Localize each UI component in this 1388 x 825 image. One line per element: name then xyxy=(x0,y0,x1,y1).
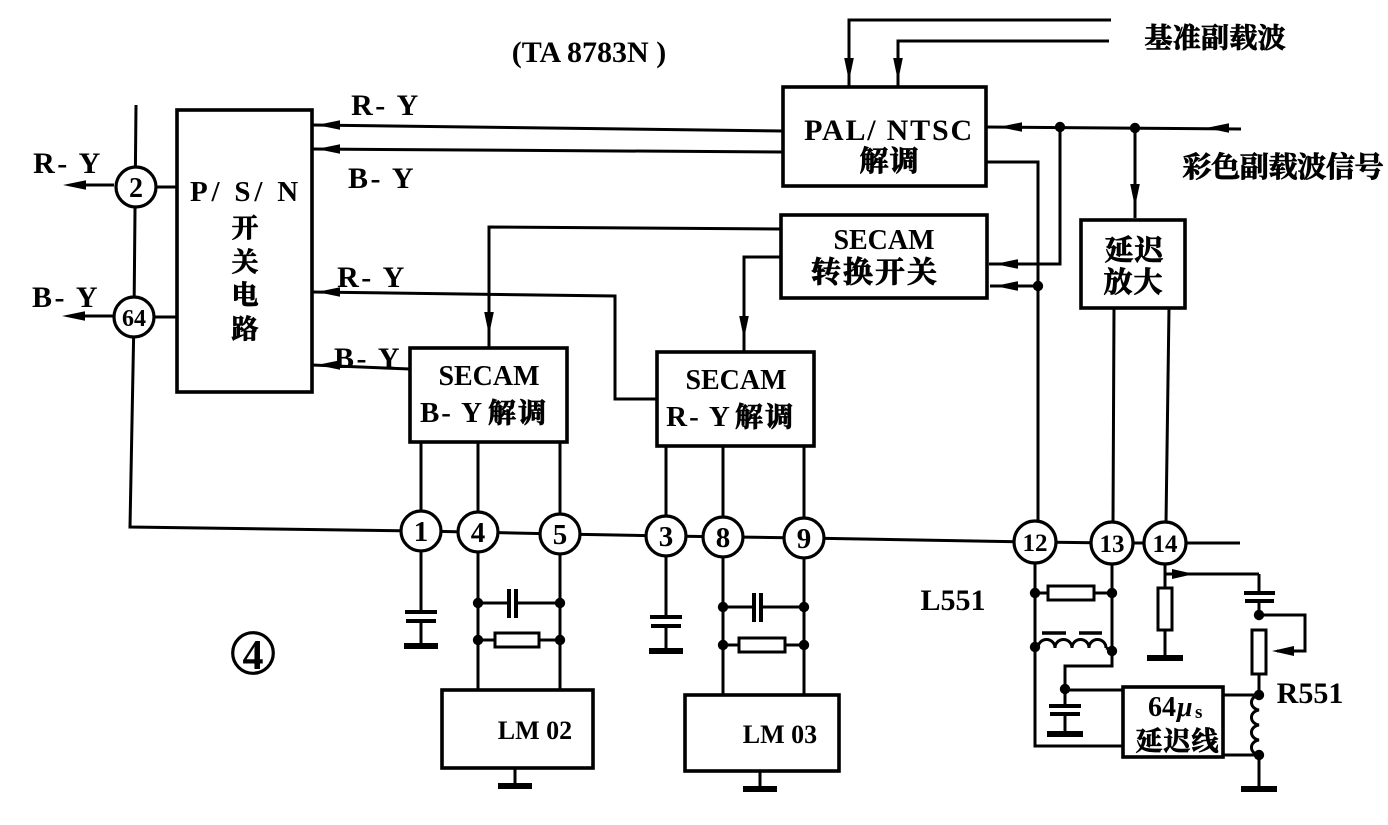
pin 14 xyxy=(1144,522,1186,564)
svg-text:3: 3 xyxy=(659,521,674,553)
net label 基准副载波 (reference subcarrier) xyxy=(1145,24,1285,50)
junction on chroma line at x1060 xyxy=(1055,122,1065,132)
wire reference subcarrier feed 2 into PAL/NTSC xyxy=(898,41,1109,86)
wire branch into SECAM switch lower input xyxy=(990,285,1038,288)
junction pin5 lower xyxy=(555,635,565,645)
svg-text:12: 12 xyxy=(1023,530,1048,557)
svg-text:B- Y: B- Y xyxy=(420,397,484,429)
resistor R1 between pins 4 and 5 xyxy=(478,639,495,642)
ground below coil xyxy=(1258,755,1261,787)
junction pin5 upper xyxy=(555,598,565,608)
ground below C1 xyxy=(420,621,423,644)
ground below C5 xyxy=(1064,714,1067,732)
wire pin 14 branch right to C6 xyxy=(1165,573,1259,576)
resistor R4 below pin 14 xyxy=(1158,588,1172,630)
svg-text:2: 2 xyxy=(129,173,143,204)
ground below R4 xyxy=(1164,630,1167,656)
wire stub terminal 2 to P/S/N box xyxy=(154,186,178,189)
svg-text:LM 03: LM 03 xyxy=(743,720,817,749)
svg-text:R- Y: R- Y xyxy=(351,89,421,122)
ground below LM02 xyxy=(514,768,517,784)
wire pin 13 down to L551 network xyxy=(1111,563,1114,651)
block U2 PAL/NTSC demodulator 解调 xyxy=(783,87,986,186)
capacitor C4 between pins 8 and 9 xyxy=(723,606,754,609)
svg-text:R- Y: R- Y xyxy=(33,147,103,180)
wire delay line box to coil top xyxy=(1224,694,1259,697)
svg-text:R- Y: R- Y xyxy=(337,261,407,294)
block U5 SECAM B-Y demodulator xyxy=(410,348,567,442)
block LM02 crystal filter xyxy=(442,690,593,768)
svg-text:8: 8 xyxy=(716,522,731,554)
wire B-Y demod to pin 5 xyxy=(559,442,562,534)
wire B-Y demod to pin 1 xyxy=(420,442,423,531)
potentiometer R551 body xyxy=(1252,630,1266,674)
svg-text:B- Y: B- Y xyxy=(32,281,100,314)
svg-text:9: 9 xyxy=(797,523,812,555)
junction pin4 upper xyxy=(473,598,483,608)
wire pin 3 to C3 xyxy=(665,556,668,617)
svg-text:5: 5 xyxy=(553,519,568,551)
wire B-Y from SECAM B-Y demod to P/S/N xyxy=(312,365,410,369)
net label 彩色副载波信号 (chroma subcarrier signal) xyxy=(1183,152,1383,179)
block LM03 crystal filter xyxy=(685,695,839,771)
wire reference subcarrier feed 1 into PAL/NTSC xyxy=(849,20,1111,86)
wire delay amp output to pin 14 xyxy=(1165,308,1169,543)
wire SECAM switch to B-Y demod xyxy=(489,227,781,347)
block U4 delay amplifier 延迟放大 xyxy=(1081,220,1185,308)
inductor L551 core dashes xyxy=(1042,631,1066,635)
svg-text:4: 4 xyxy=(243,633,264,679)
svg-text:1: 1 xyxy=(414,516,429,548)
capacitor C1 at pin 1 to ground xyxy=(405,610,437,614)
svg-text:4: 4 xyxy=(471,517,486,549)
block U1 P/S/N switching circuit 开关电路 xyxy=(177,110,312,392)
wire B-Y demod to pin 4 xyxy=(477,442,480,532)
svg-text:B- Y: B- Y xyxy=(348,162,416,195)
ground below C3 xyxy=(665,626,668,649)
pin 1 xyxy=(401,511,441,551)
capacitor C6 on pin 14 branch xyxy=(1244,591,1275,595)
svg-text:PAL/ NTSC: PAL/ NTSC xyxy=(804,114,974,147)
inductor L551 coil xyxy=(1038,640,1106,648)
svg-text:(TA 8783N ): (TA 8783N ) xyxy=(512,36,666,69)
pin 3 xyxy=(646,516,686,556)
svg-text:64: 64 xyxy=(1148,692,1176,723)
wire delay amp output to pin 13 xyxy=(1112,308,1114,543)
wire chroma branch down into delay amp xyxy=(1134,128,1137,218)
wire SECAM switch to R-Y demod xyxy=(744,257,781,351)
junction at SECAM switch lower branch xyxy=(1033,281,1043,291)
figure number 4 (circled) xyxy=(233,633,274,674)
svg-text:64: 64 xyxy=(122,306,146,332)
svg-text:LM 02: LM 02 xyxy=(498,716,572,745)
wire coil to C5 junction xyxy=(1065,651,1112,689)
svg-text:SECAM: SECAM xyxy=(685,365,786,396)
pin 8 xyxy=(703,517,743,557)
resistor R3 between pins 12 and 13 xyxy=(1035,592,1048,595)
junction pin9 lower xyxy=(799,640,809,650)
junction pin4 lower xyxy=(473,635,483,645)
svg-text:13: 13 xyxy=(1100,531,1125,558)
junction on chroma line at x1135 xyxy=(1130,123,1140,133)
wire R-Y from PAL/NTSC to P/S/N xyxy=(312,125,783,131)
svg-text:L551: L551 xyxy=(920,584,985,617)
svg-text:SECAM: SECAM xyxy=(833,225,934,256)
wire chroma branch to SECAM switch upper input xyxy=(989,127,1060,264)
block U6 SECAM R-Y demodulator xyxy=(657,352,814,446)
pin 5 xyxy=(540,514,580,554)
wire PAL/NTSC lower output down to pin 12 xyxy=(986,162,1038,542)
wire left vertical rail through terminals 2,64 down to bottom bus xyxy=(130,105,1240,543)
wire pot wiper feedback loop xyxy=(1259,615,1305,651)
junction C6 bottom xyxy=(1254,610,1264,620)
wire R-Y demod to pin 9 xyxy=(803,446,806,538)
svg-text:s: s xyxy=(1195,702,1202,723)
junction C5 top xyxy=(1060,684,1070,694)
wire pin 1 to C1 xyxy=(420,551,423,612)
svg-text:14: 14 xyxy=(1153,531,1179,558)
pin 9 xyxy=(784,518,824,558)
inductor L2 output coil xyxy=(1251,695,1259,755)
wire stub terminal 64 to P/S/N box xyxy=(152,316,178,319)
junction pin8 lower xyxy=(718,640,728,650)
junction pin8 upper xyxy=(718,602,728,612)
wire B-Y from PAL/NTSC to P/S/N xyxy=(312,149,783,152)
svg-text:SECAM: SECAM xyxy=(438,361,539,392)
wire R-Y demod to pin 3 xyxy=(665,446,668,536)
terminal 64 xyxy=(114,297,154,337)
pin 13 xyxy=(1091,522,1133,564)
svg-text:P/ S/ N: P/ S/ N xyxy=(190,176,302,208)
wire R-Y demod to pin 8 xyxy=(722,446,725,537)
ground below LM03 xyxy=(759,771,762,787)
wire pin 5 down to LM02 xyxy=(559,554,562,692)
wire pin 8 down to LM03 xyxy=(722,557,725,697)
block U3 SECAM conversion switch 转换开关 xyxy=(781,215,987,298)
junction pin13 at resistor row xyxy=(1107,588,1117,598)
junction pin13 at coil row xyxy=(1107,646,1117,656)
svg-text:R- Y: R- Y xyxy=(666,401,732,433)
wire B-Y output arrow from terminal 64 xyxy=(69,315,113,318)
wire pin 14 down to R552 xyxy=(1164,563,1167,588)
junction pin9 upper xyxy=(799,602,809,612)
pin 4 xyxy=(458,512,498,552)
wire pin 9 down to LM03 xyxy=(803,558,806,697)
svg-text:R551: R551 xyxy=(1277,677,1344,710)
block DL1 64μs delay line 延迟线 xyxy=(1123,687,1223,757)
junction pin12 at coil row xyxy=(1030,642,1040,652)
resistor R2 between pins 8 and 9 xyxy=(723,644,739,647)
wire pot to coil junction xyxy=(1258,674,1261,695)
wire chroma subcarrier input line into PAL/NTSC xyxy=(986,127,1241,129)
capacitor C2 between pins 4 and 5 xyxy=(478,602,509,605)
wire junction to delay line box xyxy=(1065,689,1123,692)
junction coil bottom xyxy=(1254,750,1264,760)
junction pin12 at resistor row xyxy=(1030,588,1040,598)
capacitor C3 at pin 3 to ground xyxy=(650,615,682,619)
wire pin 4 down to LM02 xyxy=(477,552,480,692)
wire delay line box to coil bottom xyxy=(1224,754,1259,757)
pin 12 xyxy=(1014,521,1056,563)
junction coil top xyxy=(1254,690,1264,700)
wire R-Y output arrow from terminal 2 xyxy=(70,184,114,187)
svg-text:μ: μ xyxy=(1175,692,1193,723)
terminal 2 xyxy=(116,167,156,207)
capacitor C5 to ground xyxy=(1064,689,1067,706)
wire pin 12 down and right to delay line box xyxy=(1035,562,1123,746)
wire R-Y from SECAM R-Y demod to P/S/N xyxy=(312,292,657,399)
svg-text:B- Y: B- Y xyxy=(334,342,402,375)
